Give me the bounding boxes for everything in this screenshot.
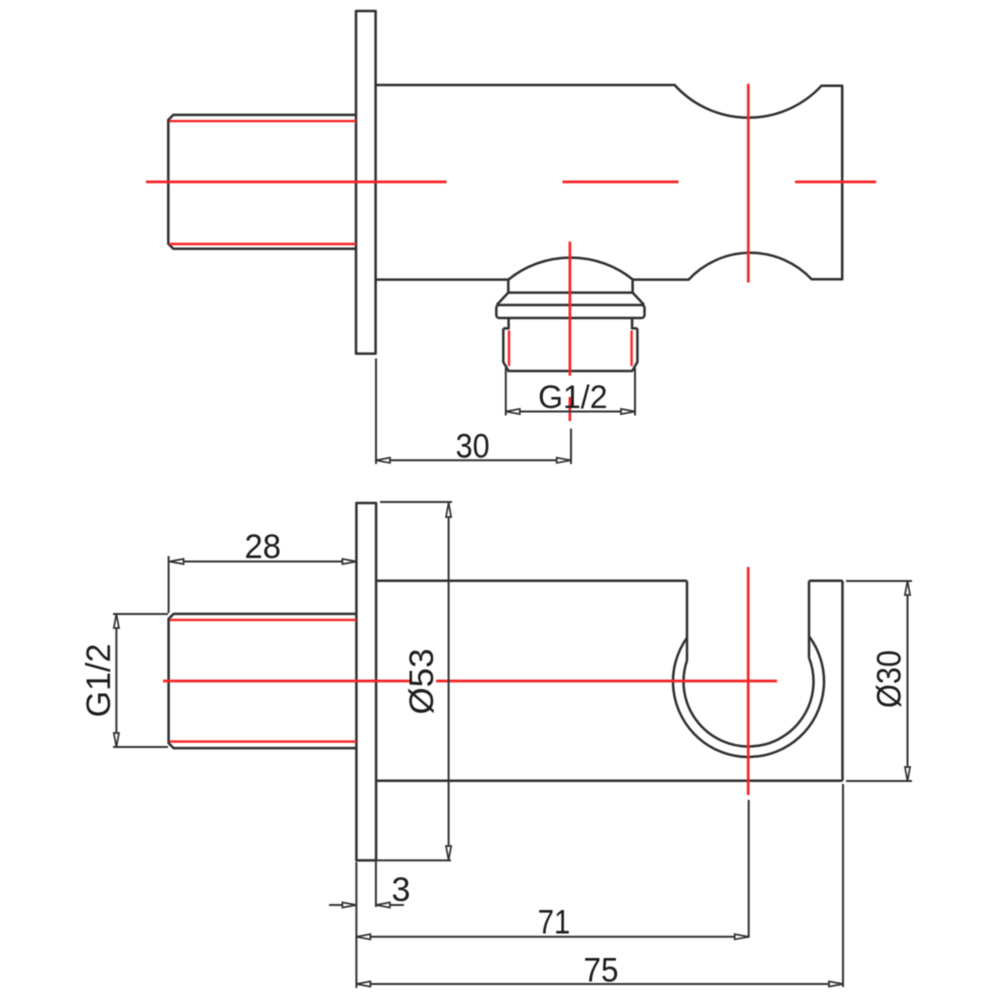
svg-text:71: 71 xyxy=(538,904,571,942)
svg-text:3: 3 xyxy=(392,871,411,909)
svg-text:75: 75 xyxy=(584,951,619,989)
svg-text:G1/2: G1/2 xyxy=(80,644,118,718)
svg-text:G1/2: G1/2 xyxy=(538,379,607,415)
svg-text:30: 30 xyxy=(456,428,490,466)
svg-text:28: 28 xyxy=(245,528,282,566)
svg-text:Ø53: Ø53 xyxy=(403,649,441,715)
svg-text:Ø30: Ø30 xyxy=(871,650,909,708)
